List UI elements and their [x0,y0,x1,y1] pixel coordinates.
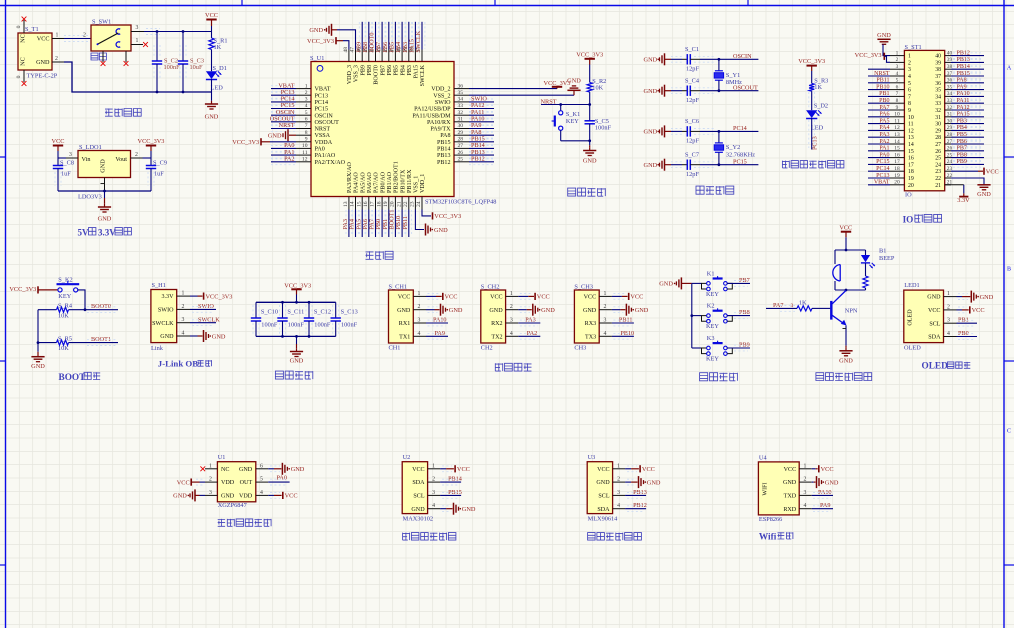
svg-text:PA9: PA9 [435,330,445,337]
svg-text:1: 1 [305,83,308,89]
svg-text:5: 5 [908,81,911,87]
svg-text:0: 0 [16,25,22,28]
svg-text:PA0: PA0 [277,475,287,482]
svg-text:PB9: PB9 [360,65,366,76]
svg-text:VCC: VCC [630,294,643,301]
svg-text:GND: GND [212,333,226,340]
svg-text:PA8: PA8 [440,133,450,139]
svg-text:WIFI: WIFI [763,482,769,495]
svg-text:33: 33 [935,101,941,107]
svg-text:VCC_3V3: VCC_3V3 [855,52,882,59]
svg-text:5: 5 [260,477,263,483]
svg-text:9: 9 [305,137,308,143]
svg-text:18: 18 [894,166,900,172]
svg-text:SCL: SCL [413,494,424,500]
svg-text:VSS_2: VSS_2 [433,93,450,99]
svg-text:VCC: VCC [398,295,411,301]
svg-text:GND: GND [397,308,411,314]
svg-text:PB3: PB3 [957,118,967,124]
svg-text:4: 4 [182,331,185,337]
svg-text:K1: K1 [707,271,715,278]
svg-text:12: 12 [302,156,308,162]
svg-text:OSCIN: OSCIN [315,113,334,119]
svg-text:XGZP6847: XGZP6847 [218,502,247,509]
svg-text:PB4: PB4 [957,125,967,131]
svg-text:2: 2 [182,304,185,310]
svg-text:VCC_3V3: VCC_3V3 [138,138,165,145]
svg-text:2: 2 [432,477,435,483]
svg-text:1K: 1K [799,300,807,307]
svg-text:7: 7 [305,123,308,129]
svg-text:VCC: VCC [972,307,985,314]
svg-text:VCC: VCC [784,467,797,473]
svg-text:GND: GND [927,295,941,301]
svg-text:24: 24 [935,162,941,168]
svg-text:PB8: PB8 [367,65,373,76]
svg-text:2: 2 [908,60,911,66]
svg-text:C: C [1007,429,1011,435]
svg-text:15: 15 [894,146,900,152]
svg-text:100nF: 100nF [164,64,181,71]
svg-text:14: 14 [350,201,356,207]
svg-text:NPN: NPN [845,307,858,314]
svg-text:6: 6 [896,84,899,90]
svg-text:LED: LED [811,125,824,132]
svg-text:1: 1 [56,33,59,39]
svg-text:GND: GND [449,307,463,314]
svg-text:32: 32 [458,110,464,116]
svg-text:4: 4 [908,74,911,80]
svg-text:S_Y1: S_Y1 [726,72,740,79]
svg-text:PB10: PB10 [876,84,889,90]
svg-text:13: 13 [908,135,914,141]
svg-text:27: 27 [935,142,941,148]
svg-text:S_SW1: S_SW1 [92,19,111,26]
svg-text:GND: GND [411,507,425,513]
svg-text:PA7: PA7 [879,105,889,111]
svg-text:2: 2 [83,33,86,39]
svg-text:20: 20 [908,183,914,189]
svg-text:CH3: CH3 [574,345,586,352]
svg-text:4: 4 [305,103,308,109]
svg-text:3: 3 [510,318,513,324]
svg-text:10: 10 [894,112,900,118]
svg-text:PA10: PA10 [433,317,447,324]
svg-text:GND: GND [239,467,253,473]
svg-text:7: 7 [896,91,899,97]
svg-text:TX3: TX3 [585,334,596,340]
svg-text:Vin: Vin [82,156,91,163]
svg-text:GND: GND [309,27,323,34]
svg-text:3: 3 [209,490,212,496]
svg-text:1: 1 [432,463,435,469]
svg-text:2: 2 [135,152,138,158]
svg-text:RX3: RX3 [585,321,597,327]
svg-text:S_C1: S_C1 [685,46,699,53]
svg-text:BOOT0: BOOT0 [374,65,380,85]
svg-text:PA5: PA5 [879,118,889,124]
svg-text:PB6: PB6 [957,139,967,145]
svg-text:TXD: TXD [784,494,797,500]
svg-text:NRST: NRST [279,122,295,129]
svg-text:GND: GND [839,357,853,364]
svg-text:GND: GND [644,88,658,95]
svg-text:5V: 5V [78,228,90,238]
svg-text:VCC_3V3: VCC_3V3 [576,51,603,58]
svg-text:J-Link OB: J-Link OB [158,359,198,369]
svg-text:3: 3 [603,318,606,324]
svg-text:PA0: PA0 [879,152,889,158]
svg-text:PB5: PB5 [957,132,967,138]
svg-text:30: 30 [935,122,941,128]
svg-text:PB15: PB15 [448,489,462,496]
svg-text:K3: K3 [707,335,715,342]
svg-text:GND: GND [825,479,839,486]
svg-text:RXD: RXD [783,507,796,513]
svg-text:VCC: VCC [285,493,298,500]
svg-text:12: 12 [908,128,914,134]
svg-text:PB1: PB1 [879,91,889,97]
svg-text:3: 3 [804,490,807,496]
svg-text:PA2: PA2 [284,155,294,162]
svg-text:31: 31 [935,115,941,121]
svg-text:100nF: 100nF [341,322,358,329]
svg-text:7: 7 [908,94,911,100]
svg-text:PC15: PC15 [315,107,329,113]
svg-text:PA6/AO: PA6/AO [367,172,373,193]
svg-text:VCC: VCC [642,466,655,473]
svg-text:VSS_3: VSS_3 [354,65,360,82]
svg-text:12pF: 12pF [686,66,699,73]
svg-text:STM32F103C8T6_LQFP48: STM32F103C8T6_LQFP48 [425,198,496,205]
svg-text:CH1: CH1 [389,345,401,352]
svg-text:GND: GND [583,308,597,314]
svg-text:22: 22 [403,201,409,207]
svg-text:PB3: PB3 [407,65,413,76]
svg-text:32.768KHz: 32.768KHz [726,151,755,158]
svg-text:S_C7: S_C7 [685,152,699,159]
svg-text:GND: GND [877,32,891,39]
svg-text:S_C10: S_C10 [261,309,278,316]
svg-text:TYPE-C-2P: TYPE-C-2P [27,73,58,80]
svg-text:PA3: PA3 [879,132,889,138]
svg-text:PA8: PA8 [957,78,967,84]
svg-text:5: 5 [896,78,899,84]
svg-text:OSCIN: OSCIN [733,53,752,60]
svg-text:PA12/USB/DP: PA12/USB/DP [414,107,451,113]
svg-text:SWCLK: SWCLK [415,30,422,52]
svg-text:1: 1 [603,291,606,297]
svg-text:22: 22 [935,176,941,182]
svg-text:16: 16 [908,156,914,162]
svg-text:38: 38 [935,67,941,73]
svg-text:MLX90614: MLX90614 [588,515,619,522]
svg-text:S_R4: S_R4 [58,302,73,309]
svg-text:SWIO: SWIO [435,100,451,106]
svg-text:S_U1: S_U1 [310,55,324,62]
svg-text:PC13: PC13 [315,93,329,99]
svg-text:VCC: VCC [177,480,190,487]
svg-text:SDA: SDA [412,480,425,486]
svg-text:32: 32 [935,108,941,114]
svg-text:9: 9 [896,105,899,111]
svg-text:OSCOUT: OSCOUT [315,120,340,126]
svg-text:PA1/AO: PA1/AO [315,153,336,159]
svg-text:PA2: PA2 [879,139,889,145]
svg-text:10K: 10K [58,312,69,319]
svg-text:PA11/USB/DM: PA11/USB/DM [412,113,451,119]
svg-text:4: 4 [617,503,620,509]
svg-text:VCC_3V3: VCC_3V3 [9,286,36,293]
svg-text:2: 2 [617,477,620,483]
svg-text:PC13: PC13 [876,173,889,179]
svg-text:PB11: PB11 [619,317,633,324]
svg-text:PB6: PB6 [387,65,393,76]
svg-text:GND: GND [980,294,994,301]
svg-text:100nF: 100nF [288,322,305,329]
svg-text:2: 2 [804,477,807,483]
svg-text:16: 16 [363,201,369,207]
svg-text:27: 27 [458,143,464,149]
svg-text:3: 3 [182,317,185,323]
svg-text:PB14: PB14 [957,64,970,70]
svg-text:GND: GND [644,57,658,64]
svg-text:GND: GND [583,157,597,164]
svg-text:S_T1: S_T1 [25,26,39,33]
svg-text:12pF: 12pF [686,171,699,178]
svg-text:PB8: PB8 [957,152,967,158]
svg-text:VCC: VCC [205,12,218,19]
svg-text:VCC: VCC [490,295,503,301]
svg-text:26: 26 [935,149,941,155]
svg-text:KEY: KEY [566,118,579,125]
svg-text:GND: GND [541,307,555,314]
svg-text:35: 35 [458,90,464,96]
svg-text:GND: GND [644,129,658,136]
svg-text:VCC: VCC [52,138,65,145]
svg-text:17: 17 [908,162,914,168]
svg-text:IO: IO [905,191,912,198]
svg-text:VSSA: VSSA [315,133,331,139]
svg-text:GND: GND [489,308,503,314]
svg-text:18: 18 [376,201,382,207]
svg-text:PB7: PB7 [380,65,386,76]
svg-text:S_C13: S_C13 [341,309,358,316]
svg-text:PA1: PA1 [879,146,889,152]
svg-text:PA2/TX/AO: PA2/TX/AO [315,160,346,166]
svg-text:1: 1 [136,38,139,44]
svg-text:12: 12 [894,125,900,131]
svg-text:PB0: PB0 [879,98,889,104]
svg-text:PB1/AO: PB1/AO [387,171,393,193]
svg-text:PB13: PB13 [957,57,970,63]
svg-text:2: 2 [55,56,58,62]
svg-text:4: 4 [603,331,606,337]
svg-text:PB0/AO: PB0/AO [380,171,386,193]
svg-text:28: 28 [458,137,464,143]
svg-text:IO: IO [903,215,914,225]
svg-text:100nF: 100nF [261,322,278,329]
svg-text:GND: GND [596,480,610,486]
svg-text:GND: GND [98,215,112,222]
svg-text:10: 10 [908,115,914,121]
svg-text:PB12: PB12 [957,50,970,56]
svg-text:8MHz: 8MHz [726,79,742,86]
svg-text:VDDA: VDDA [315,140,333,146]
svg-text:S_C12: S_C12 [314,309,331,316]
svg-text:PA10: PA10 [818,489,832,496]
svg-text:2: 2 [418,304,421,310]
svg-text:25: 25 [935,156,941,162]
svg-text:S_C6: S_C6 [685,118,699,125]
svg-text:ESP8266: ESP8266 [759,516,782,523]
svg-text:Wifi: Wifi [759,532,777,542]
svg-text:VDD_3: VDD_3 [347,65,353,84]
svg-text:26: 26 [458,150,464,156]
svg-text:PB4: PB4 [400,65,406,76]
svg-text:37: 37 [935,74,941,80]
svg-text:VCC_3V3: VCC_3V3 [232,139,259,146]
svg-text:1: 1 [947,291,950,297]
svg-text:VCC: VCC [928,308,941,314]
svg-text:OLED: OLED [908,309,914,326]
svg-text:39: 39 [935,60,941,66]
svg-text:GND: GND [977,191,991,198]
svg-text:RX2: RX2 [491,321,503,327]
svg-text:SWIO: SWIO [158,308,174,314]
svg-text:PA4/AO: PA4/AO [354,172,360,193]
svg-text:3: 3 [947,318,950,324]
svg-text:31: 31 [458,117,464,123]
svg-text:PB12: PB12 [437,160,451,166]
svg-text:PB2/BOOT1: PB2/BOOT1 [394,161,400,193]
svg-text:OLED: OLED [922,362,949,372]
svg-text:PB5: PB5 [394,65,400,76]
svg-text:VCC: VCC [537,294,550,301]
svg-text:PC14: PC14 [876,166,889,172]
svg-text:PB12: PB12 [633,502,647,509]
svg-text:PB9: PB9 [957,159,967,165]
svg-text:3.3V: 3.3V [161,294,174,300]
svg-text:PB11: PB11 [876,78,889,84]
svg-text:4: 4 [896,71,899,77]
svg-text:PA12: PA12 [957,105,970,111]
svg-text:PA11: PA11 [957,98,970,104]
svg-text:3: 3 [418,318,421,324]
svg-text:14: 14 [908,142,914,148]
svg-text:3: 3 [908,67,911,73]
svg-text:GND: GND [205,113,219,120]
svg-text:GND: GND [290,358,304,365]
svg-text:2: 2 [305,90,308,96]
svg-text:34: 34 [458,97,464,103]
svg-text:GND: GND [567,77,581,84]
svg-text:KEY: KEY [706,356,719,363]
svg-text:VDD: VDD [239,494,253,500]
svg-text:TX2: TX2 [491,334,502,340]
svg-text:S_D1: S_D1 [213,65,227,72]
svg-text:PC13: PC13 [811,136,818,150]
svg-text:VCC_3V3: VCC_3V3 [206,293,233,300]
svg-text:GND: GND [31,363,45,370]
svg-text:10K: 10K [592,85,603,92]
svg-text:GND: GND [221,494,235,500]
svg-text:36: 36 [935,81,941,87]
svg-text:5: 5 [305,110,308,116]
svg-text:VBAT: VBAT [874,180,890,186]
svg-text:GND: GND [462,506,476,513]
svg-text:SCL: SCL [598,494,609,500]
svg-text:1: 1 [617,463,620,469]
svg-text:1: 1 [510,291,513,297]
svg-text:NRST: NRST [874,71,890,77]
svg-text:PA9: PA9 [820,502,830,509]
svg-text:9: 9 [908,108,911,114]
svg-text:10K: 10K [58,345,69,352]
svg-text:23: 23 [410,201,416,207]
svg-text:PC14: PC14 [315,100,329,106]
svg-text:VCC: VCC [457,466,470,473]
svg-text:NRST: NRST [315,127,331,133]
svg-text:VCC_3V3: VCC_3V3 [434,213,461,220]
svg-text:1: 1 [804,463,807,469]
svg-text:NC: NC [20,57,27,66]
svg-text:GND: GND [659,281,673,288]
svg-text:KEY: KEY [706,291,719,298]
svg-text:28: 28 [935,135,941,141]
svg-text:K2: K2 [707,303,715,310]
svg-text:GND: GND [36,59,50,66]
svg-text:PC14: PC14 [733,125,747,132]
svg-text:21: 21 [935,183,941,189]
svg-text:GND: GND [160,334,174,340]
svg-text:3: 3 [305,97,308,103]
svg-text:VCC: VCC [821,466,834,473]
svg-text:GND: GND [268,132,282,139]
svg-text:0: 0 [16,75,22,78]
svg-text:48: 48 [343,47,349,53]
svg-text:VSS_1: VSS_1 [414,176,420,193]
svg-text:PB10/TX: PB10/TX [400,169,406,193]
svg-text:8: 8 [305,130,308,136]
svg-text:2: 2 [510,304,513,310]
svg-text:13: 13 [343,201,349,207]
svg-text:100nF: 100nF [314,322,331,329]
svg-text:PA10: PA10 [957,91,970,97]
svg-text:S_C9: S_C9 [153,159,167,166]
svg-text:PA15: PA15 [414,65,420,78]
svg-text:BEEP: BEEP [879,255,895,262]
svg-text:PA6: PA6 [879,112,889,118]
svg-text:S_H1: S_H1 [152,282,166,289]
svg-text:VCC: VCC [445,294,458,301]
svg-text:S_K2: S_K2 [58,276,72,283]
svg-text:VCC: VCC [412,467,425,473]
svg-text:PC15: PC15 [876,159,889,165]
svg-text:VDD_1: VDD_1 [420,174,426,193]
svg-text:GND: GND [647,479,661,486]
svg-text:19: 19 [908,176,914,182]
svg-text:S_C8: S_C8 [60,159,74,166]
svg-text:1: 1 [908,54,911,60]
svg-text:PB11/RX: PB11/RX [407,169,413,193]
svg-text:20: 20 [894,180,900,186]
svg-text:PB14: PB14 [437,147,451,153]
svg-text:1uF: 1uF [61,171,71,178]
svg-text:29: 29 [458,130,464,136]
svg-text:CH2: CH2 [481,345,493,352]
svg-text:21: 21 [396,201,402,207]
